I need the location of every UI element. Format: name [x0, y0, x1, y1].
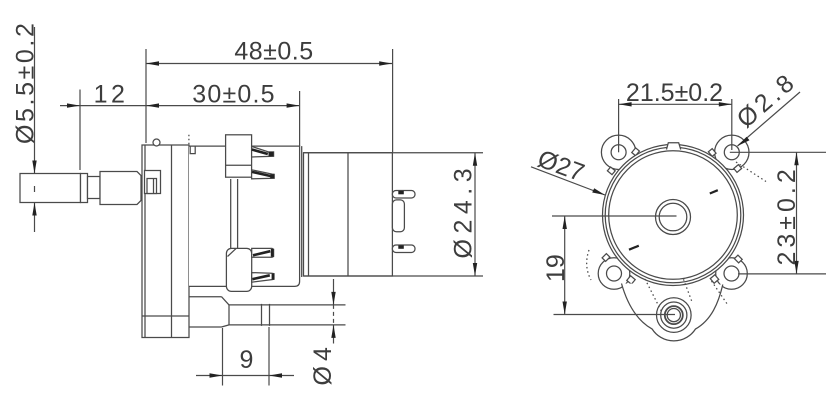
svg-text:19: 19	[542, 254, 570, 282]
svg-text:Ø27: Ø27	[534, 145, 588, 187]
svg-text:Ø24.3: Ø24.3	[450, 163, 478, 259]
svg-text:48±0.5: 48±0.5	[234, 38, 313, 66]
svg-text:Ø5.5±0.2: Ø5.5±0.2	[12, 21, 40, 144]
svg-text:Ø4: Ø4	[309, 342, 337, 385]
svg-text:Ø2.8: Ø2.8	[732, 67, 803, 134]
svg-text:23±0.2: 23±0.2	[773, 165, 801, 265]
svg-text:21.5±0.2: 21.5±0.2	[626, 79, 723, 107]
svg-text:12: 12	[94, 81, 129, 109]
svg-text:30±0.5: 30±0.5	[192, 81, 275, 109]
svg-text:9: 9	[240, 346, 254, 374]
